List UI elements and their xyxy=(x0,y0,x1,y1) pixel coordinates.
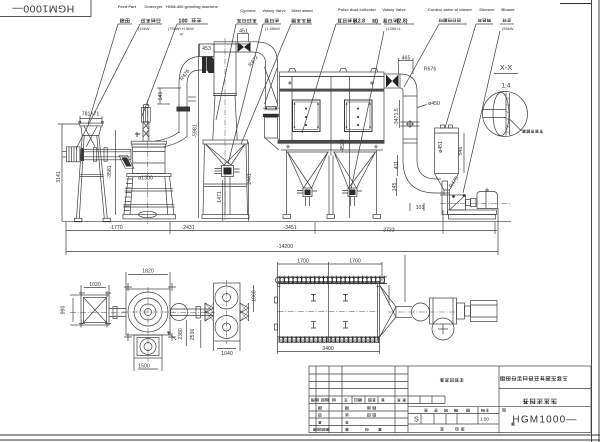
svg-text:1020: 1020 xyxy=(89,282,101,288)
svg-text:-2431: -2431 xyxy=(181,225,194,231)
svg-text:3141: 3141 xyxy=(56,171,62,183)
svg-text:546: 546 xyxy=(458,147,464,156)
svg-text:(12.8: (12.8 xyxy=(353,19,365,25)
svg-text:1960: 1960 xyxy=(252,290,258,302)
svg-text:HGM-400 grinding machine: HGM-400 grinding machine xyxy=(166,4,219,9)
svg-text:ø1300: ø1300 xyxy=(138,176,153,182)
svg-text:R676: R676 xyxy=(424,67,437,73)
svg-text:(75kW+H.5kW: (75kW+H.5kW xyxy=(168,26,194,31)
svg-text:-14200: -14200 xyxy=(277,244,293,250)
svg-text:(55kW: (55kW xyxy=(502,26,514,31)
svg-text:S: S xyxy=(414,417,419,424)
svg-text:): ) xyxy=(376,19,378,25)
svg-text:646: 646 xyxy=(158,92,164,101)
svg-text:X-X: X-X xyxy=(500,63,513,72)
svg-text:145: 145 xyxy=(392,183,398,192)
svg-text:101: 101 xyxy=(416,205,425,211)
svg-text:411: 411 xyxy=(394,161,400,169)
svg-text:HGM1000—: HGM1000— xyxy=(512,415,577,426)
svg-text:(1350×L: (1350×L xyxy=(386,26,402,31)
svg-text:Silencer: Silencer xyxy=(479,7,495,12)
svg-text:-4520: -4520 xyxy=(340,139,346,152)
svg-text:453: 453 xyxy=(202,46,211,52)
svg-text:1700: 1700 xyxy=(297,259,309,265)
svg-text:2536: 2536 xyxy=(190,329,196,341)
svg-text:ø451: ø451 xyxy=(438,141,444,153)
svg-text:HGM1000—: HGM1000— xyxy=(12,2,74,14)
svg-text:Pulse dust collector: Pulse dust collector xyxy=(338,7,376,12)
svg-text:-1770: -1770 xyxy=(109,225,122,231)
svg-text:Votary Valve: Votary Valve xyxy=(382,7,406,12)
svg-text:1:50: 1:50 xyxy=(480,417,489,422)
svg-text:3400: 3400 xyxy=(322,346,334,352)
svg-text:2380: 2380 xyxy=(178,328,184,340)
svg-text:2441: 2441 xyxy=(247,173,253,185)
svg-text:1500: 1500 xyxy=(138,364,150,370)
svg-text:781×71: 781×71 xyxy=(82,112,100,118)
svg-text:1700: 1700 xyxy=(349,259,361,265)
svg-text:1040: 1040 xyxy=(221,351,233,357)
svg-text:465: 465 xyxy=(402,56,411,62)
svg-text:-3581: -3581 xyxy=(107,165,113,178)
svg-text:ø450: ø450 xyxy=(428,101,440,107)
svg-text:Feed Part: Feed Part xyxy=(118,4,137,9)
svg-text:(2.8): (2.8) xyxy=(397,19,408,25)
svg-text:100: 100 xyxy=(178,19,187,25)
svg-text:Control valve of blower: Control valve of blower xyxy=(428,7,473,12)
svg-text:Cyclone: Cyclone xyxy=(240,8,256,13)
svg-text:Steel stand: Steel stand xyxy=(291,8,313,13)
svg-text:Blower: Blower xyxy=(501,7,515,12)
svg-text:1820: 1820 xyxy=(142,269,154,275)
svg-text:1471: 1471 xyxy=(217,191,223,203)
svg-text:(15kW: (15kW xyxy=(138,26,150,31)
svg-text:-3733: -3733 xyxy=(381,228,394,234)
svg-text:-3451: -3451 xyxy=(283,225,296,231)
svg-text:Conveyer: Conveyer xyxy=(144,4,163,9)
svg-text:(1.55kW: (1.55kW xyxy=(265,26,280,31)
svg-text:1:4: 1:4 xyxy=(502,83,511,90)
svg-text:451: 451 xyxy=(239,29,248,35)
svg-text:990: 990 xyxy=(61,306,67,315)
svg-text:-3471.5: -3471.5 xyxy=(394,108,400,126)
svg-text:Votary Valve: Votary Valve xyxy=(262,8,286,13)
svg-text:-5981: -5981 xyxy=(192,124,198,137)
